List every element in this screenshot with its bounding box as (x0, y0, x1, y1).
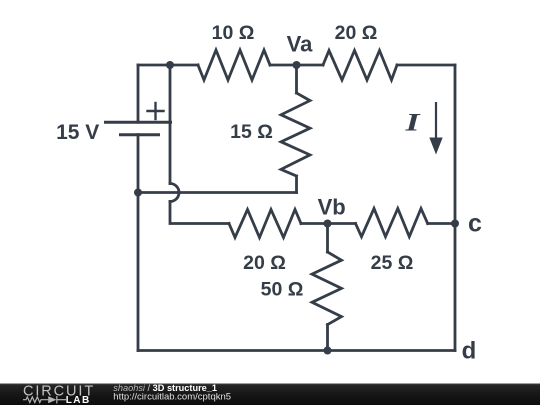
wire node Va down to 15 ohm (295, 65, 298, 93)
wire bottom rail (138, 349, 455, 352)
svg-text:50 Ω: 50 Ω (261, 279, 304, 301)
resistor R1 10 ohm zigzag (198, 50, 270, 80)
battery V1 short plate (121, 133, 159, 136)
svg-text:20 Ω: 20 Ω (335, 22, 378, 44)
wire hop vertical upper part (169, 122, 172, 183)
svg-text:Vb: Vb (318, 195, 346, 220)
wire top rail right segment (397, 64, 455, 67)
svg-text:25 Ω: 25 Ω (371, 252, 414, 274)
CircuitLab logo resistor and diode symbol (23, 396, 66, 403)
wire 15 ohm bottom to middle rail (295, 176, 298, 193)
junction dot battery minus middle rail (134, 189, 142, 197)
svg-text:c: c (468, 210, 482, 238)
wire 50 ohm bottom to bottom rail (326, 325, 329, 351)
resistor R5 25 ohm zigzag (356, 209, 428, 237)
wire 25 ohm to node c (428, 222, 455, 225)
wire hop arc over middle rail (170, 184, 179, 202)
battery V1 long plate (106, 121, 171, 124)
svg-text:15 Ω: 15 Ω (230, 121, 273, 143)
wire battery plus to hop branch vertical (169, 65, 172, 122)
svg-text:10 Ω: 10 Ω (212, 22, 255, 44)
wire battery minus down left rail (137, 135, 140, 351)
junction dot node Vb (324, 220, 332, 228)
svg-text:15 V: 15 V (56, 121, 99, 144)
battery V1 plus sign (148, 103, 164, 119)
wire hop vertical lower part to second row corner (170, 202, 229, 224)
svg-text:20 Ω: 20 Ω (243, 252, 286, 274)
svg-text:http://circuitlab.com/cptqkn5: http://circuitlab.com/cptqkn5 (113, 391, 231, 402)
resistor R6 50 ohm zigzag vertical (312, 252, 342, 325)
junction dot battery plus branch (166, 61, 174, 69)
junction dot node c (451, 220, 459, 228)
wire right vertical rail (454, 65, 457, 351)
wire second row through node Vb (301, 222, 356, 225)
wire top rail middle segment through node Va (270, 64, 323, 67)
svg-text:Va: Va (287, 32, 313, 57)
resistor R2 20 ohm zigzag (323, 51, 397, 81)
wire node Vb down to 50 ohm (326, 224, 329, 253)
resistor R4 20 ohm zigzag second row (229, 210, 301, 238)
current arrow I (429, 102, 442, 155)
svg-text:d: d (462, 338, 477, 365)
svg-text:I: I (404, 110, 421, 137)
resistor R3 15 ohm zigzag vertical (281, 93, 310, 176)
svg-text:LAB: LAB (66, 395, 91, 405)
junction dot node Va (293, 61, 301, 69)
wire top-left vertical from battery plus up (137, 65, 140, 122)
wire middle rail battery minus to 15 ohm bottom (138, 191, 297, 194)
wire top rail left segment (138, 64, 198, 67)
junction dot bottom rail 50 ohm (324, 347, 332, 355)
